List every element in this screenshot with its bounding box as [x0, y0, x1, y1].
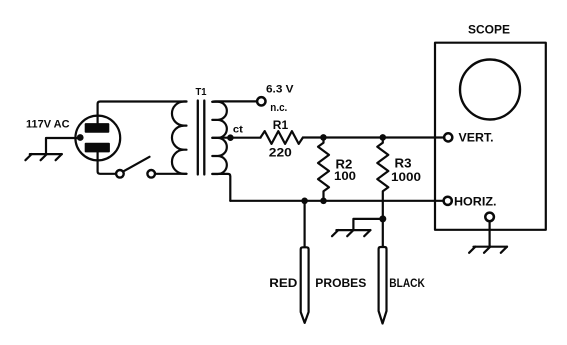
svg-text:R1: R1 [273, 118, 289, 132]
svg-text:BLACK: BLACK [389, 278, 425, 290]
svg-text:T1: T1 [196, 86, 207, 98]
svg-text:1000: 1000 [391, 170, 421, 184]
svg-text:PROBES: PROBES [315, 278, 366, 290]
svg-text:n.c.: n.c. [270, 102, 287, 114]
svg-text:R3: R3 [395, 156, 412, 170]
svg-text:SCOPE: SCOPE [468, 23, 510, 37]
svg-text:VERT.: VERT. [459, 133, 494, 145]
svg-text:6.3 V: 6.3 V [266, 83, 294, 95]
svg-text:220: 220 [269, 146, 292, 160]
svg-text:HORIZ.: HORIZ. [454, 196, 497, 208]
svg-text:100: 100 [334, 169, 356, 183]
svg-text:ct: ct [233, 123, 244, 135]
svg-text:117V AC: 117V AC [26, 118, 70, 130]
svg-text:RED: RED [269, 278, 297, 290]
